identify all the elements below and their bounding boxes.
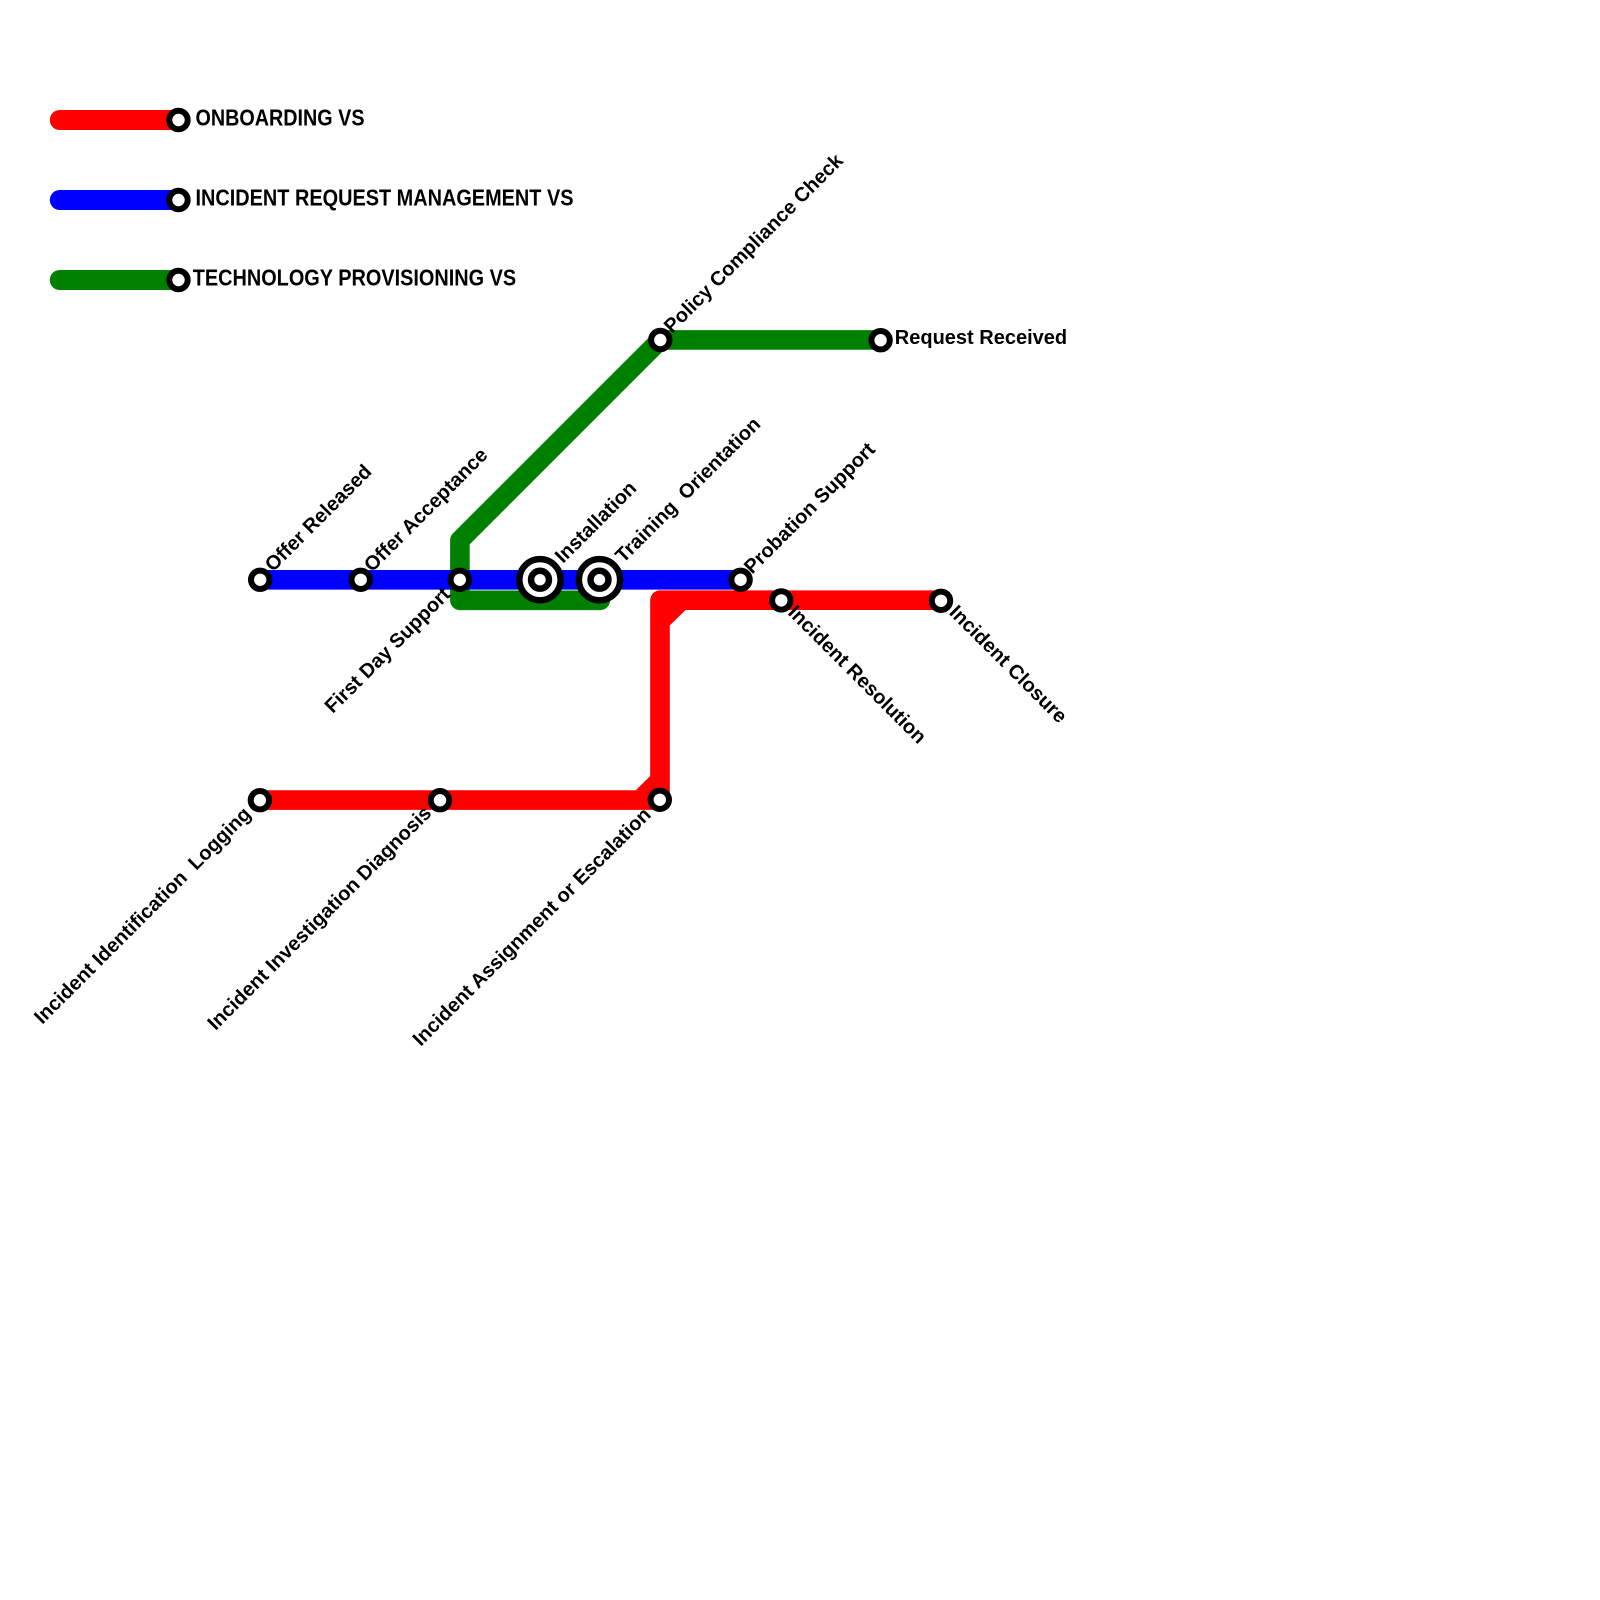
legend station Technology Provisioning bbox=[169, 271, 187, 289]
svg-text:ONBOARDING VS: ONBOARDING VS bbox=[196, 105, 365, 131]
station Incident Identification Logging bbox=[251, 791, 269, 809]
svg-text:INCIDENT REQUEST MANAGEMENT VS: INCIDENT REQUEST MANAGEMENT VS bbox=[196, 185, 574, 211]
svg-text:TECHNOLOGY PROVISIONING VS: TECHNOLOGY PROVISIONING VS bbox=[193, 265, 517, 291]
station Probation Support bbox=[731, 571, 749, 589]
red line Onboarding route bbox=[260, 600, 941, 800]
legend red line Onboarding bbox=[60, 110, 179, 130]
red line corner chamfer bottom bbox=[636, 775, 651, 790]
station Offer Released bbox=[251, 571, 269, 589]
blue line Incident Request Management route bbox=[260, 570, 740, 590]
interchange station Installation bbox=[519, 559, 560, 600]
svg-text:Request Received: Request Received bbox=[895, 327, 1067, 349]
station Incident Assignment or Escalation bbox=[651, 791, 669, 809]
station First Day Support bbox=[451, 571, 469, 589]
station Request Received bbox=[871, 331, 889, 349]
interchange station Training Orientation bbox=[579, 559, 620, 600]
station Incident Investigation Diagnosis bbox=[431, 791, 449, 809]
red line corner chamfer top bbox=[669, 609, 686, 626]
legend green line Technology Provisioning bbox=[60, 270, 179, 290]
legend station Incident Request Management bbox=[169, 191, 187, 209]
station Incident Closure bbox=[932, 592, 950, 610]
legend blue line Incident Request Management bbox=[60, 190, 179, 210]
station Offer Acceptance bbox=[352, 571, 370, 589]
station Policy Compliance Check bbox=[651, 331, 669, 349]
green line Technology Provisioning route bbox=[460, 340, 881, 600]
station Incident Resolution bbox=[772, 591, 790, 609]
legend station Onboarding bbox=[169, 111, 187, 129]
